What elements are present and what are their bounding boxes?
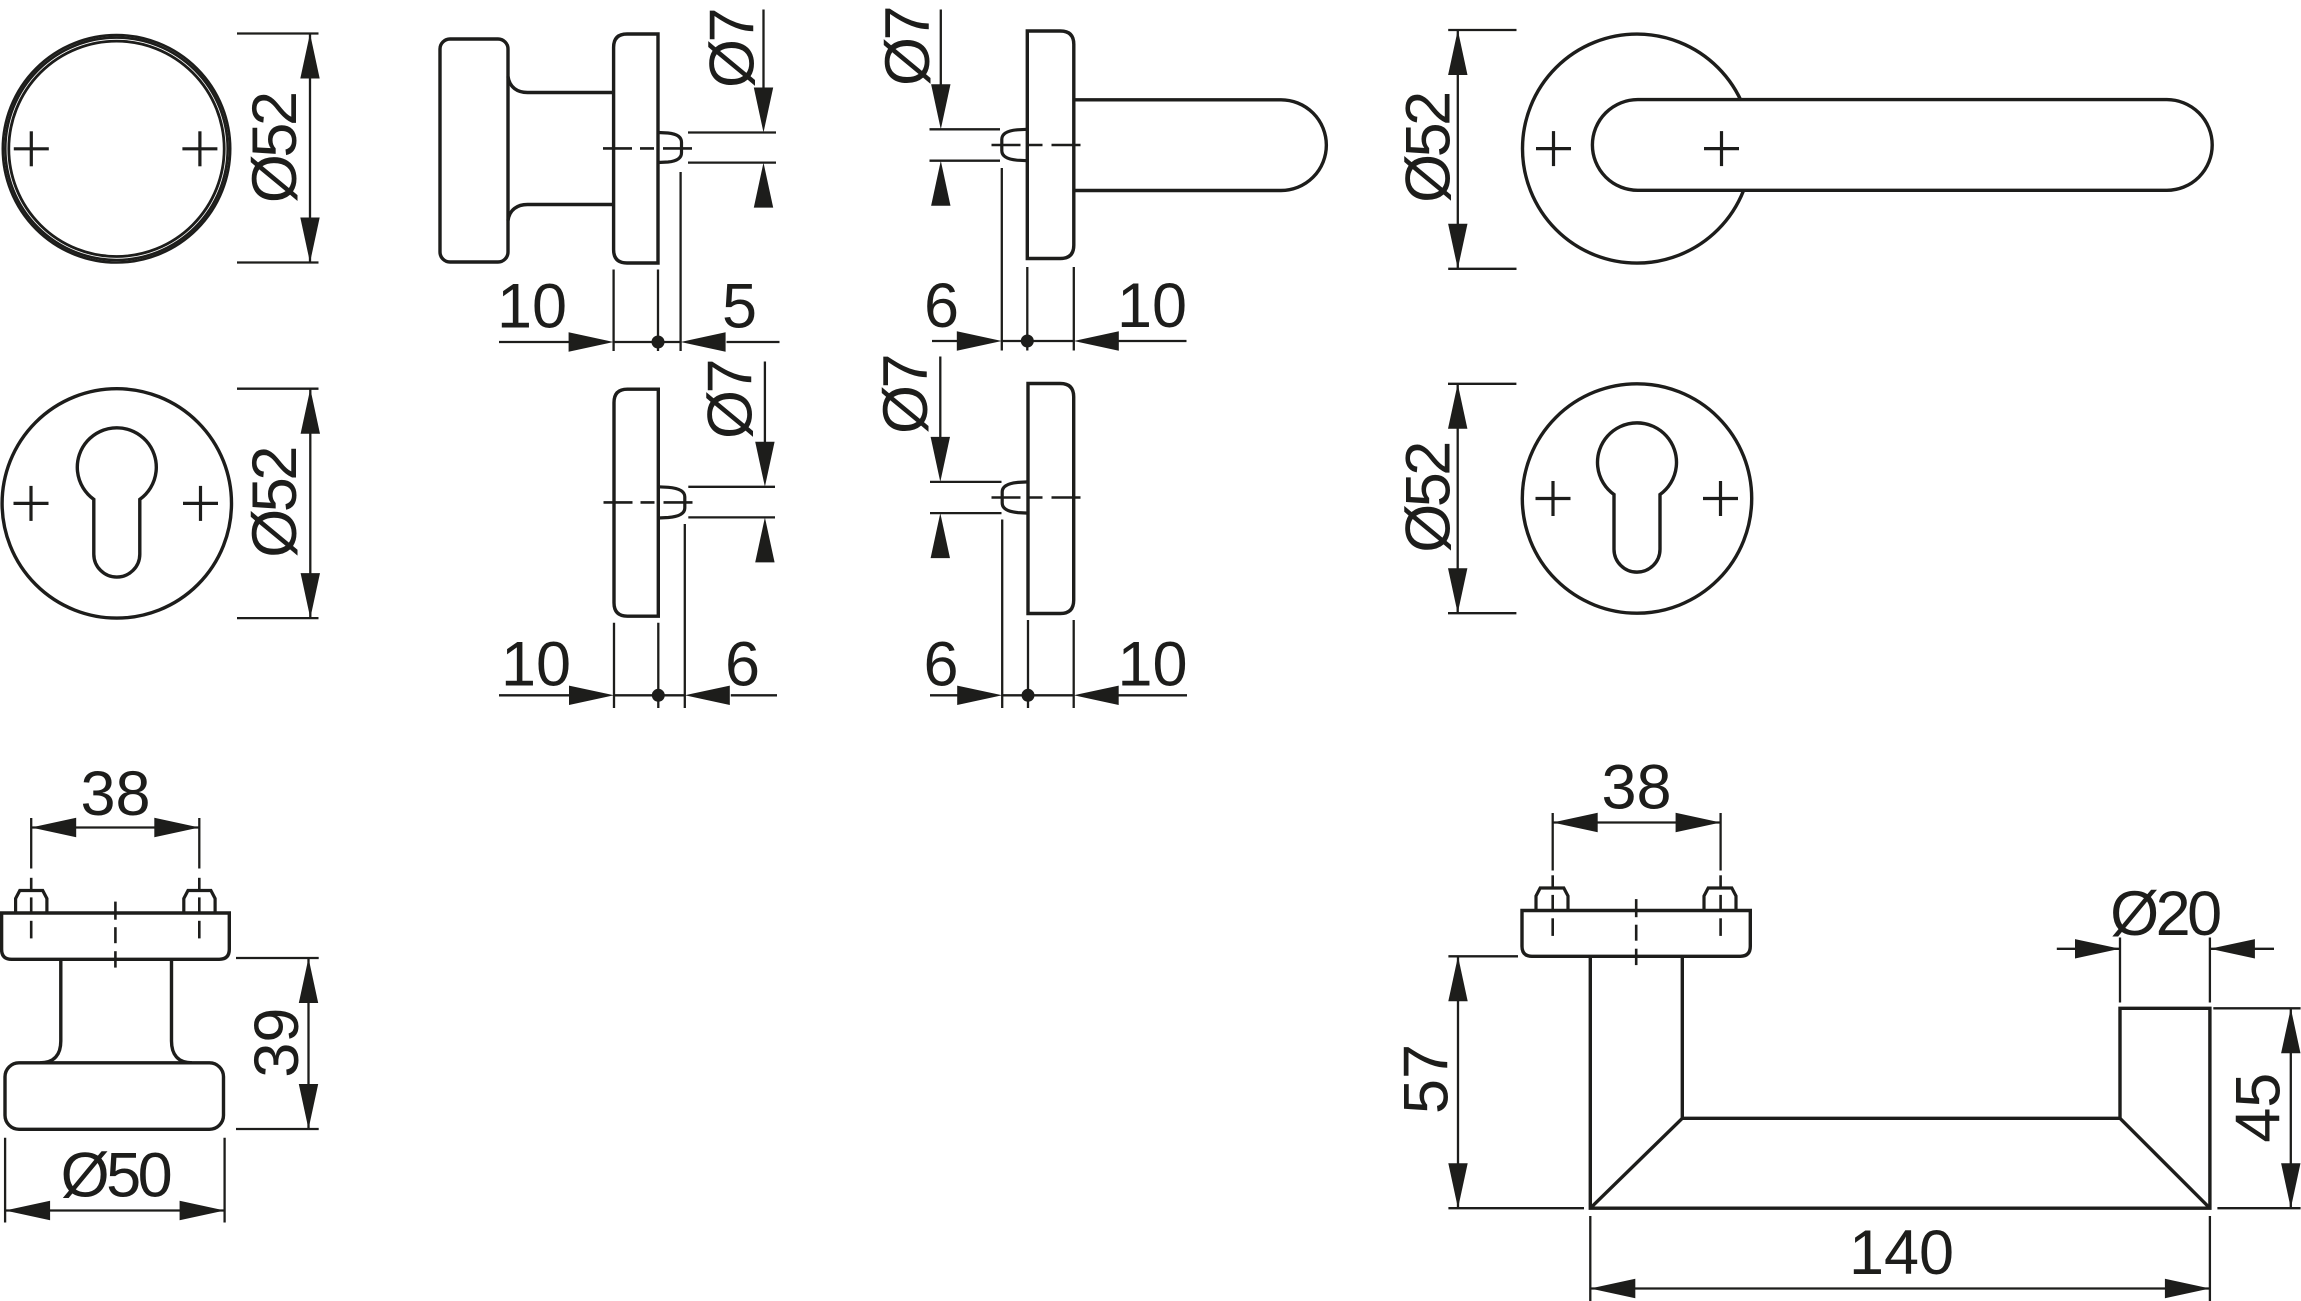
svg-text:6: 6 [923, 629, 958, 699]
svg-text:45: 45 [2224, 1073, 2294, 1143]
svg-text:140: 140 [1849, 1218, 1954, 1288]
svg-text:10: 10 [1117, 629, 1187, 699]
svg-text:38: 38 [80, 759, 150, 829]
svg-text:Ø52: Ø52 [1394, 94, 1464, 203]
svg-text:Ø20: Ø20 [2110, 879, 2220, 949]
svg-text:Ø7: Ø7 [873, 9, 943, 87]
svg-text:10: 10 [497, 272, 567, 342]
svg-text:Ø7: Ø7 [696, 362, 766, 440]
svg-text:38: 38 [1601, 753, 1671, 823]
svg-text:6: 6 [924, 271, 959, 341]
svg-text:57: 57 [1392, 1044, 1462, 1114]
svg-text:6: 6 [725, 629, 760, 699]
svg-text:10: 10 [501, 629, 571, 699]
svg-text:Ø52: Ø52 [1394, 444, 1464, 553]
svg-text:5: 5 [722, 272, 757, 342]
svg-text:Ø50: Ø50 [61, 1141, 171, 1211]
svg-text:Ø52: Ø52 [240, 449, 310, 558]
svg-text:10: 10 [1117, 271, 1187, 341]
svg-text:39: 39 [242, 1008, 312, 1078]
svg-text:Ø7: Ø7 [698, 11, 768, 89]
svg-text:Ø7: Ø7 [871, 357, 941, 435]
svg-text:Ø52: Ø52 [240, 94, 310, 203]
